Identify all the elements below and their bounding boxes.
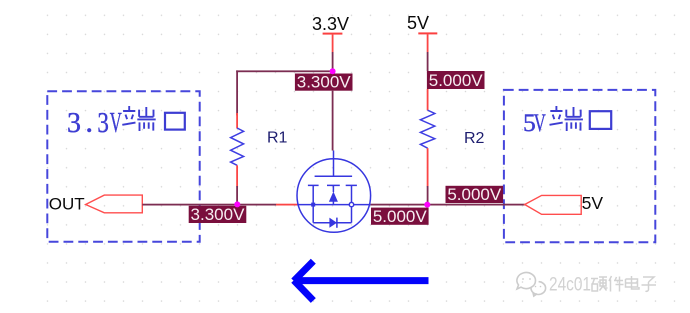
svg-text:V: V <box>534 108 546 137</box>
source junction diamond <box>311 203 315 207</box>
svg-text:R2: R2 <box>464 130 485 147</box>
wire label to R2 <box>427 89 429 110</box>
power bar symbol 3.3V <box>323 33 343 35</box>
gate pin <box>333 151 335 177</box>
resistor R2 <box>420 110 434 148</box>
resistor R1 <box>231 128 244 165</box>
gate bar <box>315 175 353 177</box>
power net label 5V <box>407 13 429 33</box>
svg-text:R1: R1 <box>267 129 288 146</box>
junction node 5V net <box>424 202 430 208</box>
power net label 3.3V <box>312 14 349 34</box>
svg-text:5.000V: 5.000V <box>429 71 484 90</box>
glyph kou <box>165 113 185 130</box>
wire 5V bar down <box>427 34 429 71</box>
glyph duan <box>122 106 155 131</box>
source contact lead <box>312 185 314 222</box>
wire R1 upper lead <box>236 70 238 128</box>
svg-text:3: 3 <box>67 108 81 139</box>
power bar symbol 5V <box>418 32 437 34</box>
svg-text:V: V <box>110 108 122 139</box>
wire mosfet to 5V junction <box>371 204 428 206</box>
watermark glyph zi <box>642 277 657 291</box>
net label 5.000V mosfet side <box>371 207 429 226</box>
wire R1 lower lead to junction <box>236 165 238 204</box>
svg-text:5V: 5V <box>582 193 604 213</box>
junction node 3.3V <box>330 68 336 74</box>
svg-text:3.300V: 3.300V <box>191 205 246 224</box>
drain open node <box>349 202 353 206</box>
wire 3.3V bar to junction <box>332 35 334 71</box>
pin text OUT <box>49 194 85 213</box>
drain contact lead <box>351 185 353 222</box>
port box 3.3V dashed <box>47 91 199 241</box>
watermark glyph dian <box>626 276 640 289</box>
designator R2 <box>464 130 485 147</box>
port symbol OUT <box>86 195 143 213</box>
svg-text:24c01: 24c01 <box>549 275 591 296</box>
channel contact segments <box>308 184 357 186</box>
wire label to mosfet gate <box>332 91 334 151</box>
watermark logo wechat <box>517 273 546 297</box>
pin text 5V <box>582 193 604 213</box>
wire junction to 5V port <box>427 204 524 206</box>
net label 5.000V top <box>427 71 485 90</box>
junction node OUT net <box>234 201 240 207</box>
body diode <box>329 218 337 228</box>
direction arrow <box>294 261 429 300</box>
title 3.3V port <box>67 106 185 139</box>
glyph duan <box>550 106 583 131</box>
bottom body diode path <box>313 222 351 224</box>
svg-text:OUT: OUT <box>49 194 85 213</box>
port symbol 5V <box>525 195 582 214</box>
wire OUT port to mosfet <box>142 204 297 206</box>
net label 5.000V port side <box>446 185 504 204</box>
wire R2 lower lead to junction <box>427 148 429 204</box>
watermark glyph jian <box>609 276 624 292</box>
net label 3.300V top <box>295 73 353 92</box>
bulk lead with arrow <box>332 185 334 204</box>
svg-text:5.000V: 5.000V <box>447 185 502 204</box>
mosfet Q1 <box>297 151 371 233</box>
net label 3.300V bottom <box>189 205 247 224</box>
svg-text:3.300V: 3.300V <box>297 73 352 92</box>
svg-text:3: 3 <box>97 108 109 139</box>
svg-text:3.3V: 3.3V <box>312 14 349 34</box>
svg-text:5.000V: 5.000V <box>373 207 428 226</box>
watermark glyph ying <box>591 277 608 291</box>
port box 5V dashed <box>504 90 655 242</box>
title 5V port <box>523 106 611 137</box>
mosfet body circle <box>297 159 371 233</box>
svg-text:5V: 5V <box>407 13 429 33</box>
designator R1 <box>267 129 288 146</box>
source horizontal lead <box>297 204 370 206</box>
watermark text 24c01 <box>549 275 591 296</box>
wire junction to R1 top corner <box>236 70 333 72</box>
glyph kou <box>590 111 611 129</box>
